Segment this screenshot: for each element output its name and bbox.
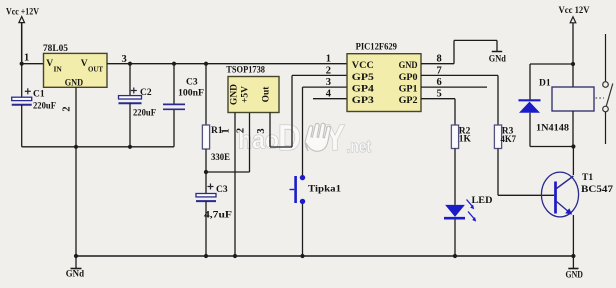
svg-text:2: 2 bbox=[236, 128, 247, 133]
svg-text:.net: .net bbox=[347, 137, 372, 156]
svg-text:C1: C1 bbox=[33, 90, 45, 100]
svg-text:V: V bbox=[46, 59, 53, 69]
svg-text:V: V bbox=[81, 59, 88, 69]
svg-text:8: 8 bbox=[437, 54, 442, 65]
svg-text:1: 1 bbox=[326, 54, 331, 65]
svg-text:GND: GND bbox=[399, 61, 418, 71]
svg-text:4K7: 4K7 bbox=[501, 135, 517, 145]
svg-text:GP2: GP2 bbox=[399, 96, 418, 106]
svg-text:1K: 1K bbox=[459, 135, 472, 145]
svg-text:IN: IN bbox=[54, 65, 63, 74]
svg-text:2: 2 bbox=[326, 65, 331, 76]
svg-text:GP4: GP4 bbox=[352, 84, 374, 94]
svg-text:T1: T1 bbox=[582, 173, 593, 183]
svg-text:C3: C3 bbox=[186, 78, 198, 88]
svg-text:GP0: GP0 bbox=[399, 73, 418, 83]
svg-text:GND: GND bbox=[65, 78, 84, 88]
svg-text:GNd: GNd bbox=[489, 54, 507, 64]
svg-text:1N4148: 1N4148 bbox=[536, 124, 569, 134]
svg-text:GND: GND bbox=[230, 84, 240, 105]
svg-text:BC547: BC547 bbox=[581, 185, 613, 195]
svg-text:2: 2 bbox=[61, 106, 72, 111]
svg-text:3: 3 bbox=[326, 77, 331, 88]
svg-text:GP3: GP3 bbox=[352, 96, 374, 106]
svg-text:Vcc +12V: Vcc +12V bbox=[6, 8, 39, 18]
svg-text:PIC12F629: PIC12F629 bbox=[356, 43, 398, 53]
svg-text:Tipka1: Tipka1 bbox=[308, 185, 341, 195]
svg-text:4: 4 bbox=[326, 89, 332, 100]
svg-text:1: 1 bbox=[221, 128, 232, 133]
svg-text:TSOP1738: TSOP1738 bbox=[226, 66, 265, 76]
svg-text:VCC: VCC bbox=[352, 61, 374, 71]
svg-text:+5V: +5V bbox=[241, 86, 251, 103]
svg-text:3: 3 bbox=[256, 128, 267, 133]
svg-text:100nF: 100nF bbox=[178, 88, 204, 98]
svg-text:1: 1 bbox=[24, 53, 29, 64]
svg-text:GNd: GNd bbox=[66, 269, 85, 279]
svg-text:78L05: 78L05 bbox=[43, 44, 68, 54]
svg-text:6: 6 bbox=[437, 77, 442, 88]
svg-text:LED: LED bbox=[472, 196, 493, 206]
svg-text:GND: GND bbox=[566, 271, 584, 281]
svg-text:GP5: GP5 bbox=[352, 73, 374, 83]
svg-text:5: 5 bbox=[437, 89, 442, 100]
svg-text:4,7uF: 4,7uF bbox=[204, 211, 232, 221]
svg-text:Vcc 12V: Vcc 12V bbox=[559, 6, 590, 16]
svg-text:OUT: OUT bbox=[88, 65, 103, 74]
svg-text:C3: C3 bbox=[216, 185, 228, 195]
svg-text:7: 7 bbox=[437, 65, 442, 76]
svg-text:D: D bbox=[278, 117, 301, 158]
svg-text:GP1: GP1 bbox=[399, 84, 418, 94]
svg-text:Out: Out bbox=[262, 86, 272, 103]
svg-text:330E: 330E bbox=[211, 153, 230, 163]
svg-text:220uF: 220uF bbox=[133, 109, 156, 119]
svg-text:D1: D1 bbox=[539, 79, 551, 89]
svg-text:220uF: 220uF bbox=[33, 102, 56, 112]
